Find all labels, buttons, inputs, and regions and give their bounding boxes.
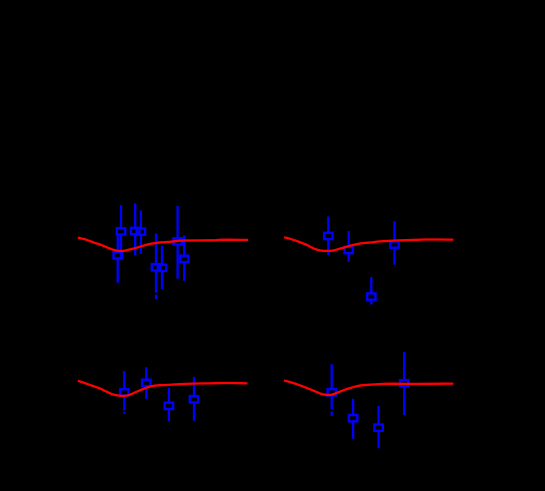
errorbar P3 plot1 — [134, 203, 136, 227]
red fit curve plot1 — [78, 238, 248, 251]
errorbar P1 plot1 — [120, 205, 122, 228]
marker F plot3 (open square) — [142, 380, 150, 386]
red fit curve plot3 — [78, 381, 248, 396]
marker P7 plot1 (open square) — [173, 238, 181, 244]
red fit curve plot2 — [284, 237, 453, 251]
marker P1 plot1 (open square) — [117, 228, 125, 234]
errorbar P5 plot1 — [155, 234, 157, 265]
marker P8 plot1 (open square) — [180, 256, 188, 262]
errorbar F plot3 — [145, 367, 147, 379]
errorbar H plot3 — [193, 377, 195, 396]
marker I plot4 (open square) — [328, 389, 336, 395]
errorbar B plot2 — [348, 231, 350, 247]
errorbar J plot4 — [352, 399, 354, 415]
marker P5 plot1 (open square) — [152, 264, 160, 270]
errorbar C plot2 — [393, 221, 395, 241]
marker A plot2 (open square) — [324, 233, 332, 239]
errorbar D plot2 — [370, 277, 372, 293]
marker D plot2 (open square) — [367, 293, 375, 299]
errorbar A plot2 — [327, 217, 329, 233]
errorbar P8 plot1 — [183, 235, 185, 255]
errorbar I plot4 — [331, 364, 333, 389]
marker G plot3 (open square) — [165, 403, 173, 409]
errorbar E lower dash plot3 — [123, 412, 125, 414]
marker L plot4 (open square) — [400, 380, 408, 386]
marker B plot2 (open square) — [345, 247, 353, 253]
errorbar P5 lower dash plot1 — [155, 295, 157, 300]
errorbar E plot3 — [123, 371, 125, 389]
errorbar L plot4 — [403, 352, 405, 380]
errorbar G plot3 — [168, 388, 170, 403]
marker E plot3 (open square) — [120, 389, 128, 395]
errorbar I lower dash plot4 — [331, 412, 333, 417]
marker P4 plot1 (open square) — [137, 229, 145, 235]
marker C plot2 (open square) — [390, 241, 398, 247]
marker P6 plot1 (open square) — [158, 265, 166, 271]
errorbar P4 plot1 — [140, 210, 142, 228]
errorbar P6 plot1 — [161, 246, 163, 265]
marker P3 plot1 (open square) — [131, 228, 139, 234]
errorbar P7 plot1 — [176, 206, 178, 239]
errorbar K plot4 — [377, 406, 379, 425]
marker K plot4 (open square) — [374, 425, 382, 431]
marker J plot4 (open square) — [349, 415, 357, 421]
marker P2 plot1 (open square) — [114, 252, 122, 258]
red fit curve plot4 — [284, 381, 453, 396]
marker H plot3 (open square) — [190, 396, 198, 402]
errorbar P2 plot1 — [117, 235, 119, 253]
